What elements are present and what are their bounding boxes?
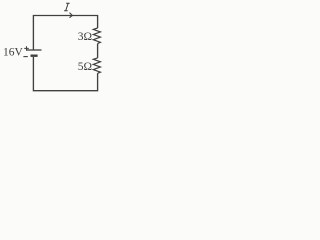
svg-text:5Ω: 5Ω xyxy=(78,61,92,73)
svg-text:3Ω: 3Ω xyxy=(78,31,92,43)
svg-text:16V: 16V xyxy=(3,47,24,59)
